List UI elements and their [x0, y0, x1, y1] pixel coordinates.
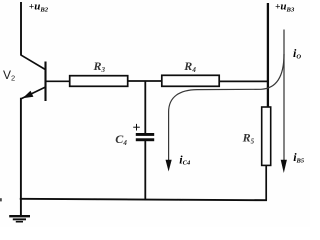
svg-text:iB5: iB5 [293, 150, 305, 164]
transistor V2 base bar [44, 62, 46, 102]
svg-text:iC4: iC4 [179, 152, 191, 166]
svg-text:C4: C4 [115, 132, 127, 147]
transistor V2 emitter with arrow [21, 87, 45, 99]
svg-text:V2: V2 [3, 68, 15, 83]
wire emitter vertical down to ground [20, 98, 22, 215]
ground [9, 215, 30, 217]
svg-text:R5: R5 [242, 131, 255, 146]
resistor R3 [70, 76, 128, 87]
wire base lead [46, 80, 71, 82]
svg-text:iO: iO [293, 46, 301, 60]
wire R3 to R4 [128, 80, 163, 82]
capacitor C4 top plate [136, 133, 154, 136]
scan artifact left edge [0, 198, 2, 201]
resistor R4 [162, 75, 219, 86]
wire collector slant into transistor [21, 55, 46, 70]
current arrow iC4 head [166, 160, 172, 172]
svg-text:+uB2: +uB2 [29, 1, 49, 14]
wire bottom rail [20, 199, 267, 200]
svg-text:R3: R3 [93, 59, 106, 74]
wire R4 to right rail [219, 80, 269, 82]
capacitor C4 polarity plus sign [133, 126, 140, 128]
current arrow iC4 curved path [169, 54, 284, 160]
svg-text:+uB3: +uB3 [275, 1, 295, 14]
wire C4 bottom lead [144, 141, 146, 200]
svg-text:R4: R4 [183, 59, 196, 74]
current arrow iO / iB5 vertical line [283, 30, 285, 161]
wire R5 bottom lead [265, 165, 267, 200]
capacitor C4 bottom plate [136, 138, 154, 141]
current arrow iB5 head [281, 160, 287, 173]
wire right rail (+uB3 vertical) [267, 3, 269, 108]
node junction C4 branch [144, 81, 146, 133]
wire collector supply lead (left vertical to +uB2) [20, 2, 22, 55]
resistor R5 [262, 107, 271, 165]
